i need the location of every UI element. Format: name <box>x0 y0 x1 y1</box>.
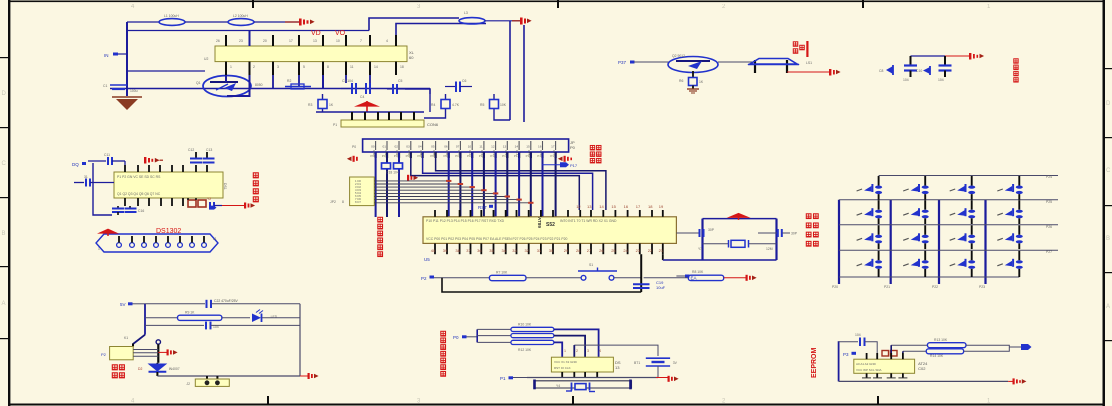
column line 4 <box>984 200 986 284</box>
wire <box>212 303 301 305</box>
svg-text:01: 01 <box>383 145 387 149</box>
LED D1 <box>252 310 278 323</box>
column net labels <box>832 285 985 289</box>
row wire 1 <box>879 175 1058 177</box>
svg-text:13: 13 <box>587 204 592 209</box>
wire top <box>911 55 946 57</box>
label power module (red, vertical) <box>112 365 124 378</box>
svg-text:Y3: Y3 <box>698 247 702 251</box>
wire battery bottom <box>657 366 659 378</box>
capacitor C15 bottom <box>112 206 124 215</box>
capacitor C13 <box>203 148 215 163</box>
svg-text:Y2: Y2 <box>207 197 211 201</box>
wire pin5 down <box>298 75 300 87</box>
cascade wire 3 <box>374 186 472 188</box>
pins top of U3 <box>125 165 207 172</box>
wire vertical bus left <box>126 22 128 96</box>
svg-text:4: 4 <box>386 39 388 43</box>
capacitor C1 polarized <box>103 84 138 93</box>
svg-text:C6: C6 <box>462 79 466 83</box>
svg-text:02: 02 <box>395 145 399 149</box>
header U4 small yellow block <box>330 177 374 206</box>
svg-text:LED: LED <box>271 315 278 319</box>
capacitor C24 <box>855 333 865 346</box>
IC U7 top pins <box>867 353 903 359</box>
power arrow left at JP1 right <box>556 153 573 162</box>
IC U7 bottom pins <box>862 373 907 378</box>
svg-text:16: 16 <box>624 204 629 209</box>
power arrow right <box>969 53 984 60</box>
capacitor C16 bottom <box>125 206 145 213</box>
row net labels <box>1046 175 1052 254</box>
wire bottom <box>157 375 300 377</box>
svg-text:DS1302: DS1302 <box>156 228 181 235</box>
svg-text:25: 25 <box>611 248 616 253</box>
capacitor C17 <box>210 202 222 209</box>
svg-text:P2: P2 <box>101 352 107 357</box>
pushbutton S10 <box>857 225 883 249</box>
svg-text:P22: P22 <box>932 285 938 289</box>
svg-text:R7 10K: R7 10K <box>496 271 508 275</box>
pushbutton S6 <box>857 200 883 224</box>
wire row2 <box>145 317 178 319</box>
svg-text:35: 35 <box>489 248 494 253</box>
svg-text:1K: 1K <box>699 80 704 84</box>
svg-text:R10 10K: R10 10K <box>518 323 532 327</box>
wire top <box>839 341 858 343</box>
wire battery top <box>574 345 658 356</box>
svg-text:60: 60 <box>409 55 414 60</box>
wire <box>222 317 250 319</box>
connector J1 <box>96 234 218 252</box>
svg-text:14: 14 <box>515 145 519 149</box>
svg-text:3: 3 <box>587 349 589 353</box>
svg-text:P25: P25 <box>1046 200 1052 204</box>
svg-text:R8 10K: R8 10K <box>692 270 704 274</box>
wire left riser <box>144 304 146 335</box>
label red right of JP1 <box>590 145 601 162</box>
svg-text:31: 31 <box>537 248 542 253</box>
svg-text:17: 17 <box>636 204 641 209</box>
node pin SDA <box>843 352 856 357</box>
wire <box>211 324 300 326</box>
svg-text:31: 31 <box>84 175 88 179</box>
power arrow right small <box>144 157 163 164</box>
column line 1 <box>838 200 840 284</box>
wire mid right <box>405 89 430 94</box>
capacitor C23 <box>206 322 219 330</box>
pushbutton S12 <box>950 225 976 249</box>
svg-text:104: 104 <box>855 333 861 337</box>
svg-text:20: 20 <box>263 39 267 43</box>
svg-text:4.7K: 4.7K <box>452 103 460 107</box>
pins bottom of U3 <box>125 198 183 206</box>
diode marker D3 <box>879 65 893 75</box>
ground <box>687 89 699 93</box>
wire bottom <box>839 380 1009 382</box>
svg-text:DQ: DQ <box>72 162 79 167</box>
cascade wire 8 <box>374 202 531 204</box>
svg-text:P3: P3 <box>843 352 849 357</box>
svg-text:22: 22 <box>648 248 653 253</box>
svg-text:C02: C02 <box>918 366 926 371</box>
wire row2 right and down <box>554 336 585 358</box>
wire pin2 bottom to bus <box>227 75 250 96</box>
svg-text:C22 470uF/25V: C22 470uF/25V <box>214 299 238 303</box>
capacitor C9 <box>938 56 952 82</box>
svg-text:15: 15 <box>526 145 530 149</box>
node input pin IN <box>104 53 127 59</box>
wire <box>262 317 300 319</box>
svg-text:5: 5 <box>303 65 305 69</box>
net pin clock right <box>209 206 217 210</box>
resistor R12 <box>477 340 554 352</box>
cascade wire 5 <box>374 192 495 194</box>
pushbutton S15 <box>903 251 929 277</box>
wire row3 <box>145 324 204 326</box>
svg-text:R12 10K: R12 10K <box>518 348 532 352</box>
wire row1 right and down <box>554 329 599 357</box>
svg-text:104: 104 <box>938 78 944 82</box>
wire left riser <box>838 341 840 381</box>
svg-text:15: 15 <box>611 204 616 209</box>
junction dots red on cascade <box>446 180 534 204</box>
svg-text:IN: IN <box>104 53 109 58</box>
svg-text:K1: K1 <box>124 336 128 340</box>
wire base rail <box>127 70 205 72</box>
wire bottom bus <box>527 377 658 379</box>
svg-text:30P: 30P <box>791 232 798 236</box>
svg-text:P23: P23 <box>979 285 985 289</box>
svg-text:10K: 10K <box>500 103 507 107</box>
wire right drop c <box>509 21 511 120</box>
svg-text:28: 28 <box>576 248 581 253</box>
svg-text:IN4007: IN4007 <box>169 367 180 371</box>
wire second rail <box>127 30 369 32</box>
resistor R14 <box>903 349 964 358</box>
label MCU module (red, vertical) <box>378 217 383 256</box>
svg-text:U5: U5 <box>424 257 430 262</box>
svg-text:A: A <box>2 301 6 307</box>
capacitor C22 <box>207 299 239 308</box>
svg-text:L1 100uH: L1 100uH <box>164 14 179 18</box>
pushbutton S16 <box>950 251 976 277</box>
transistor Q2 <box>668 54 718 73</box>
wire bottom rail <box>110 88 430 90</box>
cascade wire 4 <box>374 189 484 191</box>
svg-text:33: 33 <box>512 248 517 253</box>
wire <box>133 303 146 305</box>
svg-text:14: 14 <box>374 65 378 69</box>
svg-text:7: 7 <box>360 39 362 43</box>
resistor R9 <box>178 311 222 321</box>
svg-text:S1: S1 <box>589 263 593 267</box>
svg-text:00: 00 <box>371 145 375 149</box>
label buzzer module (red) <box>793 41 808 57</box>
svg-text:P1: P1 <box>333 123 337 127</box>
svg-text:38: 38 <box>455 248 460 253</box>
svg-text:P20: P20 <box>832 285 838 289</box>
resistor R13 <box>891 338 966 353</box>
svg-text:P2: P2 <box>421 276 427 281</box>
pin stubs bottom of U2 <box>226 62 404 75</box>
power block P2 <box>101 347 133 360</box>
capacitor C20 <box>676 228 714 237</box>
svg-text:VCC WP SCL SDA: VCC WP SCL SDA <box>856 368 882 372</box>
svg-text:12: 12 <box>576 204 581 209</box>
wire pin3 down <box>272 75 274 89</box>
svg-text:05: 05 <box>431 145 435 149</box>
svg-text:R3: R3 <box>308 103 312 107</box>
wire reset row <box>434 277 489 279</box>
wire red lead <box>512 20 521 22</box>
wire <box>634 61 669 63</box>
svg-text:R14 10K: R14 10K <box>930 354 944 358</box>
wire header bus <box>316 111 424 113</box>
row wire 3 <box>839 224 1058 226</box>
svg-text:AT89: AT89 <box>537 217 542 228</box>
wire <box>185 21 228 23</box>
capacitor C5 <box>387 79 405 94</box>
svg-text:2: 2 <box>576 349 578 353</box>
svg-text:1: 1 <box>230 65 232 69</box>
MCU bottom pin stubs <box>435 243 663 254</box>
svg-text:P37: P37 <box>618 60 627 65</box>
svg-text:L2 100uH: L2 100uH <box>233 14 248 18</box>
svg-text:C11: C11 <box>104 153 110 157</box>
svg-text:P1: P1 <box>500 376 506 381</box>
IC U6 bottom pins <box>562 372 597 378</box>
svg-text:C4: C4 <box>360 95 364 99</box>
IC U6 <box>551 357 620 372</box>
resistor R6 box <box>679 78 704 90</box>
svg-text:S52: S52 <box>546 222 555 228</box>
svg-text:26: 26 <box>216 39 220 43</box>
wire collector down <box>692 71 694 78</box>
wire lower right row <box>644 277 689 279</box>
svg-text:C3 104: C3 104 <box>342 79 353 83</box>
svg-text:P21: P21 <box>884 285 890 289</box>
crystal Y4 <box>533 380 632 392</box>
IC U7 <box>854 359 928 373</box>
connector J1 pin stubs <box>119 236 204 243</box>
resistor R10 <box>477 323 554 332</box>
svg-text:13: 13 <box>615 365 620 370</box>
column line 3 <box>938 200 940 284</box>
svg-text:A0 A1 A2 GND: A0 A1 A2 GND <box>856 362 877 366</box>
svg-text:P0: P0 <box>453 335 459 340</box>
pushbutton S14 <box>857 251 883 277</box>
cascade wire 2 <box>374 183 460 185</box>
svg-text:J2: J2 <box>186 382 190 386</box>
power arrow VOUT right <box>520 18 532 25</box>
net pin P17 right of JP1 <box>542 162 578 168</box>
svg-text:VD: VD <box>311 30 321 37</box>
capacitor C12 <box>188 148 202 163</box>
pushbutton S11 <box>903 225 929 249</box>
wire red to arrow <box>656 377 668 379</box>
JP1 pin stubs and net labels <box>370 145 556 159</box>
pushbutton S13 <box>997 225 1023 249</box>
wire pin to block <box>132 344 134 347</box>
svg-text:23: 23 <box>636 248 641 253</box>
power arrow right <box>308 373 319 379</box>
resistor R11 <box>477 334 554 338</box>
svg-text:100u: 100u <box>130 89 138 93</box>
svg-text:17: 17 <box>551 145 555 149</box>
svg-text:CON6: CON6 <box>427 122 439 127</box>
svg-text:R9 1K: R9 1K <box>185 311 195 315</box>
wire reset bottom loop <box>442 278 641 292</box>
wire top rail <box>127 21 160 23</box>
svg-text:8: 8 <box>342 200 344 204</box>
sheet border bottom <box>8 396 1104 406</box>
power arrow up <box>354 101 380 112</box>
svg-text:03: 03 <box>406 145 410 149</box>
svg-text:P0: P0 <box>570 145 576 150</box>
svg-text:P0: P0 <box>352 145 356 149</box>
svg-text:19: 19 <box>659 204 664 209</box>
pushbutton S2 <box>857 176 883 200</box>
power arrow right <box>1013 378 1027 384</box>
MCU U5 <box>423 217 676 244</box>
svg-text:16: 16 <box>538 145 542 149</box>
svg-text:P10 P11 P12 P13 P14 P15 P16 P1: P10 P11 P12 P13 P14 P15 P16 P17 RST RXD … <box>426 219 505 223</box>
svg-text:INT0 INT1 T0 T1 WR RD X2 X1 GN: INT0 INT1 T0 T1 WR RD X2 X1 GND <box>560 219 617 223</box>
capacitor C6 <box>445 79 472 92</box>
pushbutton S9 <box>997 200 1023 224</box>
power arrow right small mid <box>407 175 418 181</box>
wire <box>614 277 641 279</box>
pushbutton S17 <box>997 251 1023 277</box>
svg-text:30P: 30P <box>708 228 715 232</box>
wire pin1 down <box>225 75 227 82</box>
resistor R8 <box>688 270 723 281</box>
svg-text:14: 14 <box>599 204 604 209</box>
diode D2 <box>138 363 180 376</box>
svg-text:07: 07 <box>456 145 460 149</box>
header P1 strip <box>333 120 439 127</box>
capacitor C14 left <box>74 175 114 187</box>
pushbutton S5 <box>997 176 1023 200</box>
svg-text:B: B <box>1106 236 1110 242</box>
row wire 4 <box>839 249 1058 251</box>
MCU bottom pin numbers <box>431 248 664 253</box>
svg-text:BT1: BT1 <box>634 361 640 365</box>
power arrow right <box>167 349 178 355</box>
svg-text:3V: 3V <box>673 361 678 365</box>
node P pin <box>453 335 477 340</box>
pin numbers red <box>564 349 601 353</box>
label power filter (red) <box>1014 59 1018 82</box>
wire pin 13 down <box>322 75 324 89</box>
svg-text:P24: P24 <box>1046 175 1052 179</box>
crystal loop bottom wire <box>663 259 777 261</box>
svg-text:VO: VO <box>335 30 346 37</box>
svg-text:C1: C1 <box>103 84 107 88</box>
wire feedback rail <box>429 89 431 113</box>
wire red to power <box>787 71 830 73</box>
pushbutton S8 <box>950 200 976 224</box>
MCU top pin numbers (right side) <box>576 204 664 209</box>
svg-text:04: 04 <box>418 145 422 149</box>
svg-text:VCC X1 X2 GND: VCC X1 X2 GND <box>554 360 578 364</box>
svg-text:Q1 Q2 Q3 Q4 Q5 Q6 Q7 NC: Q1 Q2 Q3 Q4 Q5 Q6 Q7 NC <box>117 192 161 196</box>
svg-text:26: 26 <box>599 248 604 253</box>
wire drop d2 <box>494 112 510 120</box>
wire red lead <box>285 21 300 23</box>
IC U3 <box>114 172 227 198</box>
svg-text:U2: U2 <box>204 57 208 61</box>
battery BT1 <box>634 358 678 366</box>
svg-text:10: 10 <box>468 145 472 149</box>
svg-text:4: 4 <box>599 349 601 353</box>
wires block to riser <box>133 350 158 357</box>
label clock module (red, vertical) <box>253 173 258 202</box>
node pin right <box>1009 344 1031 350</box>
svg-text:Q1: Q1 <box>196 81 201 85</box>
header P1 pins <box>352 112 414 120</box>
IC U2 <box>204 46 415 62</box>
node DQ pin left <box>72 162 86 167</box>
svg-text:36: 36 <box>477 248 482 253</box>
terminal J2 <box>186 376 229 386</box>
svg-text:C16: C16 <box>138 209 144 213</box>
capacitor C7 <box>903 56 917 82</box>
svg-text:17: 17 <box>289 39 293 43</box>
wire <box>254 21 300 23</box>
svg-text:10uF: 10uF <box>656 285 666 290</box>
wire vertical from MCU pin9 <box>640 254 642 292</box>
svg-text:VCC P00 P01 P02 P03 P04 P05 P0: VCC P00 P01 P02 P03 P04 P05 P06 P07 EA A… <box>426 237 567 241</box>
svg-text:D2: D2 <box>138 367 142 371</box>
svg-text:L3: L3 <box>464 11 468 15</box>
row wire 2 <box>839 199 1058 201</box>
resistor R7 <box>489 271 526 281</box>
svg-text:Q2 9012: Q2 9012 <box>672 54 685 58</box>
svg-text:12: 12 <box>491 145 495 149</box>
svg-text:RST IO CLK: RST IO CLK <box>554 366 571 370</box>
svg-text:29: 29 <box>564 248 569 253</box>
wire xtal stub down <box>662 254 664 260</box>
label keypad module (red, vertical) <box>806 214 818 246</box>
column line 2 <box>890 200 892 284</box>
svg-text:C5: C5 <box>398 79 402 83</box>
svg-text:1: 1 <box>564 349 566 353</box>
inductor L2 <box>228 14 254 25</box>
wire <box>865 342 877 353</box>
header JP1 box <box>352 139 576 152</box>
connector J1 pin circles <box>117 243 207 248</box>
node VCC pin <box>120 302 133 307</box>
svg-text:B: B <box>2 231 6 237</box>
node RST2 pin <box>421 276 434 282</box>
svg-text:JP2: JP2 <box>330 200 336 204</box>
crystal Y3 <box>698 240 777 251</box>
cascade wire 6 <box>374 196 507 198</box>
svg-text:2: 2 <box>253 65 255 69</box>
wire drops into header <box>424 112 446 118</box>
wire pin11 down <box>345 75 347 83</box>
capacitor C18 on bus <box>382 163 403 175</box>
capacitor C2 pair <box>341 79 370 99</box>
pushbutton S3 <box>903 176 929 200</box>
wire right riser a <box>369 18 459 31</box>
wire right drop d <box>523 25 525 122</box>
svg-text:34: 34 <box>502 248 507 253</box>
label display module (red, vertical) <box>441 331 446 376</box>
wire left drop <box>93 163 112 215</box>
